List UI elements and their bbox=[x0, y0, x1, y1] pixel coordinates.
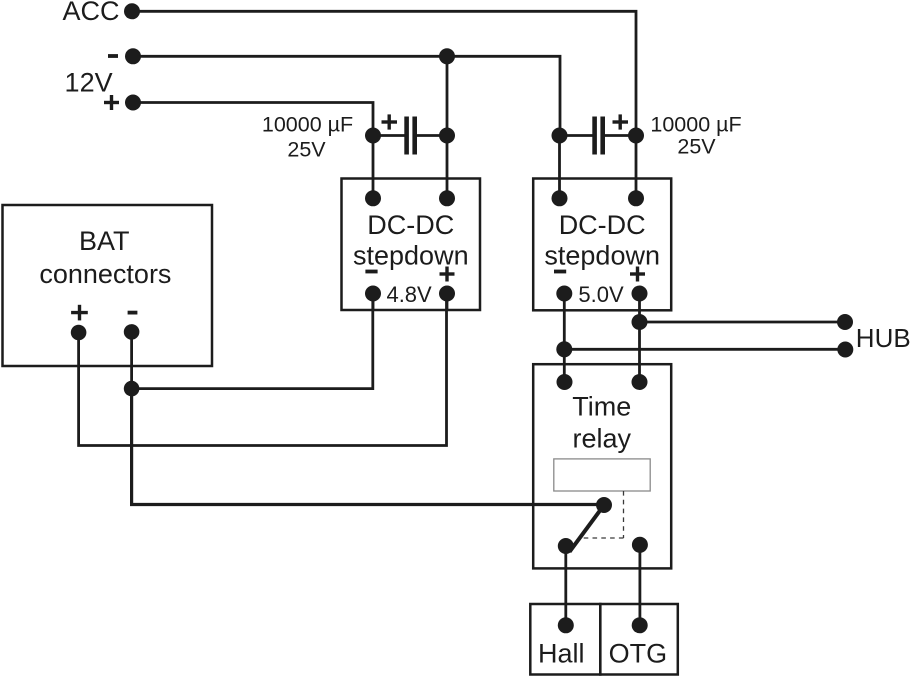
relay dashed actuation link vertical bbox=[623, 491, 625, 538]
svg-text:ACC: ACC bbox=[62, 0, 119, 26]
node HUB terminal 2 bbox=[837, 342, 853, 358]
node C1 left bbox=[365, 128, 381, 144]
node 12V plus terminal bbox=[125, 95, 141, 111]
node C2 left bbox=[552, 128, 568, 144]
svg-text:Time: Time bbox=[572, 392, 631, 422]
wire 12V minus horizontal bbox=[133, 56, 560, 135]
label U1 out plus sign bbox=[440, 272, 455, 275]
wire 12V plus horizontal+down to C1 left bbox=[133, 103, 373, 136]
node C1 right bbox=[439, 128, 455, 144]
wire relay out right to OTG bbox=[639, 545, 642, 626]
label BAT plus sign bbox=[71, 311, 88, 314]
node relay in left bbox=[557, 374, 573, 390]
box time relay K1 bbox=[533, 364, 671, 568]
wire node A down right to relay switch bbox=[132, 389, 604, 505]
node BAT minus bbox=[124, 324, 140, 340]
node relay switch common bbox=[596, 497, 612, 513]
svg-text:connectors: connectors bbox=[39, 259, 171, 289]
label BAT minus sign bbox=[128, 311, 138, 315]
relay dashed actuation link horizontal bbox=[584, 537, 624, 539]
wire C1 right plate lead bbox=[417, 134, 447, 137]
node OTG terminal bbox=[632, 617, 648, 633]
node U1 out plus bbox=[439, 286, 455, 302]
box OTG bbox=[600, 604, 678, 675]
svg-text:DC-DC: DC-DC bbox=[559, 210, 646, 240]
wire U2 plus out down to relay bbox=[638, 294, 641, 383]
relay switch blade bbox=[570, 505, 605, 552]
box BAT connectors bbox=[3, 205, 213, 366]
node ACC terminal bbox=[124, 3, 140, 19]
label C2 plus sign bbox=[613, 120, 629, 123]
svg-text:BAT: BAT bbox=[79, 226, 130, 256]
wire C2 right plate lead bbox=[605, 134, 636, 137]
node 12V minus terminal bbox=[125, 48, 141, 64]
svg-text:relay: relay bbox=[573, 424, 632, 454]
box U2 DC-DC stepdown bbox=[533, 179, 671, 311]
capacitor C2 plates bbox=[592, 117, 605, 155]
svg-text:10000 µF: 10000 µF bbox=[262, 113, 353, 137]
wire HUB line 2 bbox=[564, 348, 845, 351]
relay coil rectangle bbox=[554, 459, 650, 491]
wire relay out left to Hall bbox=[564, 546, 567, 625]
node U2 out plus bbox=[632, 286, 648, 302]
node relay in right bbox=[632, 374, 648, 390]
wire C1 right into U1 bbox=[446, 136, 449, 199]
wire C2 left plate lead bbox=[560, 134, 593, 137]
box Hall bbox=[530, 604, 600, 675]
wire U2 minus out down to relay bbox=[563, 294, 566, 383]
label U2 out plus sign bbox=[630, 272, 645, 275]
label U1 out minus sign bbox=[365, 270, 377, 274]
wire C1 left into U1 bbox=[372, 136, 375, 199]
capacitor C1 plates bbox=[404, 117, 417, 155]
node U2 out minus bbox=[556, 286, 572, 302]
node HUB terminal 1 bbox=[837, 314, 853, 330]
node U1 in minus bbox=[365, 190, 381, 206]
node Hall terminal bbox=[558, 617, 574, 633]
wire junction 12V minus down to C1 bbox=[446, 56, 449, 135]
wire HUB line 1 bbox=[640, 321, 846, 324]
node relay contact right bbox=[632, 537, 648, 553]
node U2 in right bbox=[628, 190, 644, 206]
wire U1 minus out stub bbox=[372, 294, 375, 312]
node junction 12V minus branch bbox=[439, 48, 455, 64]
svg-text:stepdown: stepdown bbox=[353, 240, 469, 270]
svg-text:4.8V: 4.8V bbox=[386, 282, 432, 307]
node A junction BAT minus bbox=[124, 381, 140, 397]
wire C2 right into U2 bbox=[635, 136, 638, 199]
box U1 DC-DC stepdown bbox=[342, 179, 481, 311]
svg-text:stepdown: stepdown bbox=[544, 240, 660, 270]
node HUB branch 1 bbox=[632, 314, 648, 330]
wire ACC horizontal+down to U2 bbox=[132, 11, 636, 135]
label 12V plus sign bbox=[104, 101, 119, 104]
wire U1 plus out stub bbox=[446, 294, 449, 312]
svg-text:OTG: OTG bbox=[609, 638, 668, 668]
node C2 right bbox=[628, 128, 644, 144]
wire node A right up to U1 minus out bbox=[132, 294, 373, 389]
svg-text:HUB: HUB bbox=[856, 323, 911, 353]
svg-text:10000 µF: 10000 µF bbox=[650, 113, 741, 137]
plus minus signs drawn as strokes bbox=[71, 56, 645, 320]
label 12V minus sign bbox=[108, 54, 118, 58]
label C1 plus sign bbox=[382, 120, 398, 123]
node relay contact left bbox=[558, 538, 574, 554]
svg-text:25V: 25V bbox=[287, 137, 326, 161]
label U2 out minus sign bbox=[554, 270, 566, 274]
node U2 in left bbox=[552, 190, 568, 206]
node HUB branch 2 bbox=[556, 341, 572, 357]
wire C1 left plate lead bbox=[373, 134, 405, 137]
wire C2 left into U2 bbox=[558, 136, 561, 199]
node U1 out minus bbox=[365, 286, 381, 302]
svg-text:25V: 25V bbox=[677, 135, 716, 159]
svg-text:5.0V: 5.0V bbox=[578, 282, 624, 307]
node BAT plus bbox=[71, 325, 87, 341]
svg-text:DC-DC: DC-DC bbox=[367, 210, 454, 240]
svg-text:Hall: Hall bbox=[538, 638, 585, 668]
wire BAT minus down to node A bbox=[130, 332, 133, 389]
wire BAT plus down right up to U1 plus out bbox=[79, 294, 447, 446]
node U1 in plus bbox=[439, 190, 455, 206]
svg-text:12V: 12V bbox=[65, 68, 113, 98]
